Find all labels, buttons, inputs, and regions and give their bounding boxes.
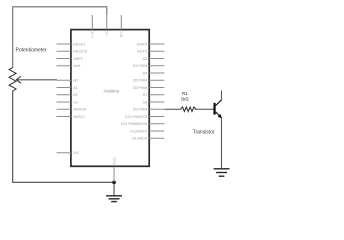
- svg-text:Transistor: Transistor: [193, 130, 215, 136]
- svg-text:RESET2: RESET2: [73, 50, 87, 54]
- svg-text:A2: A2: [73, 93, 77, 97]
- svg-text:AREF: AREF: [73, 57, 83, 61]
- svg-text:D12/MISO: D12/MISO: [130, 129, 147, 133]
- svg-text:RESET: RESET: [73, 42, 86, 46]
- svg-text:D9 PWM: D9 PWM: [133, 108, 147, 112]
- svg-text:D8: D8: [143, 100, 148, 104]
- svg-text:A1: A1: [73, 86, 77, 90]
- svg-text:VIN: VIN: [119, 31, 123, 37]
- svg-text:A3: A3: [73, 100, 77, 104]
- svg-text:D13/SCK: D13/SCK: [132, 137, 148, 141]
- svg-text:GND: GND: [112, 158, 116, 166]
- svg-text:D3 PWM: D3 PWM: [133, 64, 147, 68]
- svg-text:D6 PWM: D6 PWM: [133, 86, 147, 90]
- svg-text:D1/TX: D1/TX: [137, 50, 148, 54]
- svg-text:D10 PWM/SS: D10 PWM/SS: [125, 115, 148, 119]
- svg-text:D2: D2: [143, 57, 148, 61]
- svg-text:A4/SDA: A4/SDA: [73, 108, 86, 112]
- svg-text:D0/RX: D0/RX: [137, 42, 148, 46]
- svg-text:1kΩ: 1kΩ: [181, 96, 190, 101]
- svg-text:Arduino: Arduino: [104, 89, 120, 94]
- svg-text:D5 PWM: D5 PWM: [133, 79, 147, 83]
- svg-text:A5/SCL: A5/SCL: [73, 115, 85, 119]
- svg-text:5V: 5V: [105, 31, 109, 36]
- svg-text:A0: A0: [73, 79, 77, 83]
- svg-text:3V3: 3V3: [90, 31, 94, 37]
- svg-text:D11 PWM/MOSI: D11 PWM/MOSI: [121, 122, 147, 126]
- svg-text:Potentiometer: Potentiometer: [16, 48, 47, 54]
- svg-text:ioref: ioref: [73, 64, 80, 68]
- svg-text:D4: D4: [143, 71, 148, 75]
- svg-text:D7: D7: [143, 93, 148, 97]
- svg-text:N/C: N/C: [73, 151, 80, 155]
